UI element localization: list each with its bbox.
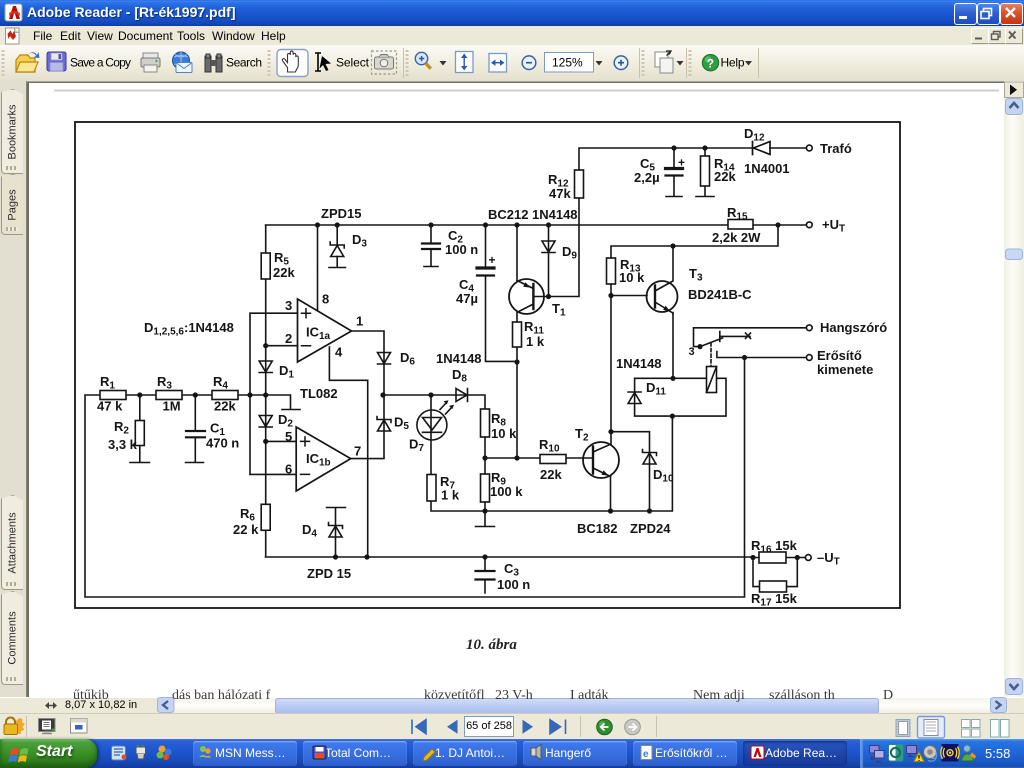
svg-text:Trafó: Trafó bbox=[820, 141, 852, 156]
svg-text:+UT: +UT bbox=[822, 217, 845, 235]
svg-text:D9: D9 bbox=[562, 244, 577, 262]
svg-text:22k: 22k bbox=[214, 399, 236, 414]
svg-text:R10: R10 bbox=[539, 437, 560, 455]
svg-text:22k: 22k bbox=[540, 467, 562, 482]
svg-text:22 k: 22 k bbox=[233, 522, 259, 537]
svg-text:TL082: TL082 bbox=[300, 386, 338, 401]
svg-text:közvetítőfl: közvetítőfl bbox=[424, 688, 485, 703]
svg-text:ZPD 15: ZPD 15 bbox=[307, 566, 351, 581]
svg-text:10 k: 10 k bbox=[619, 270, 645, 285]
svg-text:47µ: 47µ bbox=[456, 291, 478, 306]
svg-text:űtűkib: űtűkib bbox=[73, 688, 109, 703]
svg-text:BC212: BC212 bbox=[488, 207, 528, 222]
svg-text:dás ban hálózati f: dás ban hálózati f bbox=[172, 688, 271, 703]
svg-text:470 n: 470 n bbox=[206, 436, 239, 451]
svg-text:D10: D10 bbox=[653, 467, 674, 485]
svg-text:1N4148: 1N4148 bbox=[436, 351, 482, 366]
svg-text:D1: D1 bbox=[279, 363, 294, 381]
svg-text:10 k: 10 k bbox=[491, 426, 517, 441]
svg-text:R3: R3 bbox=[157, 374, 172, 392]
svg-text:10. ábra: 10. ábra bbox=[466, 637, 517, 653]
svg-text:47 k: 47 k bbox=[97, 399, 123, 414]
svg-text:D11: D11 bbox=[646, 380, 666, 398]
svg-text:1N4001: 1N4001 bbox=[744, 161, 790, 176]
svg-text:Hangszóró: Hangszóró bbox=[820, 320, 887, 335]
svg-text:ZPD24: ZPD24 bbox=[630, 521, 671, 536]
svg-text:T2: T2 bbox=[575, 426, 589, 444]
svg-text:R15: R15 bbox=[727, 205, 748, 223]
svg-text:2,2k 2W: 2,2k 2W bbox=[712, 230, 761, 245]
svg-text:100 n: 100 n bbox=[445, 242, 478, 257]
svg-text:T1: T1 bbox=[552, 301, 566, 319]
svg-text:szálláson th: szálláson th bbox=[769, 688, 835, 703]
svg-text:R4: R4 bbox=[213, 374, 228, 392]
svg-text:1N4148: 1N4148 bbox=[616, 356, 662, 371]
svg-text:1N4148: 1N4148 bbox=[532, 207, 578, 222]
svg-text:IC1b: IC1b bbox=[306, 451, 331, 469]
svg-text:5: 5 bbox=[285, 429, 292, 444]
svg-text:D1,2,5,6:1N4148: D1,2,5,6:1N4148 bbox=[144, 320, 234, 338]
svg-text:100 k: 100 k bbox=[490, 484, 523, 499]
svg-text:R1: R1 bbox=[100, 374, 115, 392]
svg-text:D4: D4 bbox=[302, 522, 317, 540]
svg-text:22k: 22k bbox=[273, 265, 295, 280]
svg-text:Erősítő: Erősítő bbox=[817, 348, 862, 363]
svg-text:BC182: BC182 bbox=[577, 521, 617, 536]
svg-text:D5: D5 bbox=[394, 415, 409, 433]
svg-text:1: 1 bbox=[356, 314, 363, 329]
svg-text:+: + bbox=[678, 156, 685, 170]
svg-text:6: 6 bbox=[285, 462, 292, 477]
svg-text:D: D bbox=[883, 688, 893, 703]
svg-text:7: 7 bbox=[354, 444, 361, 459]
svg-text:2: 2 bbox=[285, 331, 292, 346]
svg-text:4: 4 bbox=[335, 345, 343, 360]
svg-text:R16 15k: R16 15k bbox=[751, 538, 798, 556]
svg-text:D3: D3 bbox=[352, 232, 367, 250]
svg-text:R2: R2 bbox=[114, 419, 129, 437]
svg-text:8: 8 bbox=[322, 292, 329, 307]
svg-text:BD241B-C: BD241B-C bbox=[688, 287, 752, 302]
svg-text:D8: D8 bbox=[452, 367, 467, 385]
svg-text:1 k: 1 k bbox=[441, 488, 460, 503]
svg-text:3: 3 bbox=[689, 346, 695, 358]
svg-text:3,3 k: 3,3 k bbox=[108, 437, 138, 452]
svg-text:+: + bbox=[489, 253, 496, 267]
svg-text:47k: 47k bbox=[549, 186, 571, 201]
svg-text:Nem adji: Nem adji bbox=[693, 688, 745, 703]
svg-text:D7: D7 bbox=[409, 437, 424, 455]
svg-text:–UT: –UT bbox=[817, 550, 840, 568]
svg-text:T3: T3 bbox=[689, 266, 703, 284]
svg-text:100 n: 100 n bbox=[497, 577, 530, 592]
svg-text:I adták: I adták bbox=[570, 688, 608, 703]
svg-text:3: 3 bbox=[285, 298, 292, 313]
svg-text:1M: 1M bbox=[163, 399, 181, 414]
svg-text:D2: D2 bbox=[278, 412, 293, 430]
svg-text:1 k: 1 k bbox=[526, 334, 545, 349]
svg-text:IC1a: IC1a bbox=[306, 325, 331, 343]
svg-text:23 V-h: 23 V-h bbox=[495, 688, 533, 703]
svg-text:22k: 22k bbox=[714, 169, 736, 184]
svg-text:ZPD15: ZPD15 bbox=[321, 206, 361, 221]
svg-text:2,2µ: 2,2µ bbox=[634, 170, 660, 185]
svg-text:C3: C3 bbox=[504, 561, 519, 579]
svg-text:D12: D12 bbox=[744, 126, 765, 144]
svg-text:R17 15k: R17 15k bbox=[751, 591, 798, 609]
svg-text:D6: D6 bbox=[400, 350, 415, 368]
svg-text:kimenete: kimenete bbox=[817, 362, 873, 377]
svg-text:R6: R6 bbox=[240, 506, 255, 524]
